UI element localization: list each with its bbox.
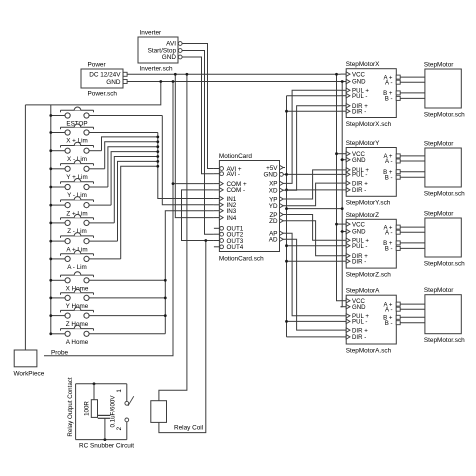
wire StepMotorZ.A- to motor	[402, 231, 425, 233]
switch X + Lim	[51, 132, 65, 134]
svg-text:1: 1	[116, 389, 123, 393]
svg-text:AVI: AVI	[166, 41, 176, 48]
switch X - Lim	[51, 150, 65, 152]
pin StepMotorY.B+ with stub	[396, 171, 401, 173]
switch Z - Lim	[51, 222, 65, 224]
svg-text:Inverter.sch: Inverter.sch	[140, 66, 173, 73]
wire Z + Lim to limit bus	[111, 152, 158, 206]
pin StepMotorX.A- with stub	[396, 81, 401, 83]
wire limit bus to MotionCard.IN1	[158, 133, 214, 199]
pin StepMotorX.PUL- with stub	[341, 95, 347, 97]
svg-text:DIR -: DIR -	[352, 258, 366, 265]
pin StepMotorX.PUL+ with stub	[341, 89, 347, 91]
pin MotionCard.COM- with stub	[214, 189, 220, 191]
wire Y DIR- branch	[287, 189, 341, 191]
wire StepMotorX.B+ to motor	[402, 92, 425, 94]
switch Z + Lim	[51, 204, 65, 206]
pin Power.DC12/24V	[123, 72, 127, 76]
svg-text:StepMotor.sch: StepMotor.sch	[424, 261, 465, 268]
svg-text:StepMotorX: StepMotorX	[346, 61, 380, 68]
pin Inverter.AVI	[178, 42, 182, 46]
svg-text:WorkPiece: WorkPiece	[14, 371, 45, 378]
wire MotionCard.YP to StepMotorY PUL+	[285, 170, 341, 199]
hierarchical block StepMotor (motor Y)	[425, 148, 461, 187]
pin StepMotorA.B+ with stub	[396, 316, 401, 318]
pin StepMotorZ.B+ with stub	[396, 242, 401, 244]
pin StepMotorA.PUL- with stub	[341, 320, 347, 322]
svg-text:A -: A -	[385, 229, 392, 236]
svg-text:GND: GND	[352, 229, 366, 236]
pin StepMotorY.PUL+ with stub	[341, 169, 347, 171]
wire MotionCard.AP to StepMotorA PUL+	[285, 233, 341, 316]
svg-text:B -: B -	[385, 174, 393, 181]
pin StepMotorA.GND with stub	[341, 306, 347, 308]
pin MotionCard.COM+ with stub	[214, 183, 220, 185]
wire COM+ branch	[173, 183, 214, 185]
hierarchical block U-Inverter	[138, 37, 178, 63]
svg-text:COM -: COM -	[227, 187, 246, 194]
svg-text:StepMotor: StepMotor	[424, 287, 454, 294]
svg-text:2: 2	[116, 426, 123, 430]
svg-text:GND: GND	[264, 172, 278, 179]
pin MotionCard.ZD with stub	[280, 220, 286, 222]
wire MotionCard.XP to StepMotorX PUL+	[285, 90, 341, 183]
pin StepMotorY.PUL- with stub	[341, 173, 347, 175]
wire StepMotorY.A- to motor	[402, 160, 425, 162]
wire home bus to MotionCard.IN3	[165, 211, 214, 334]
svg-text:IN4: IN4	[227, 215, 237, 222]
wire StepMotorX.A- to motor	[402, 81, 425, 83]
svg-text:PUL -: PUL -	[352, 243, 367, 250]
svg-text:A Home: A Home	[66, 339, 89, 346]
wire StepMotorZ.B- to motor	[402, 247, 425, 249]
pin StepMotorY.B- with stub	[396, 176, 401, 178]
wire Inverter.AVI to MotionCard.AVI+	[184, 44, 214, 169]
svg-text:PUL -: PUL -	[352, 319, 367, 326]
component Relay Coil	[151, 401, 167, 423]
pin StepMotorZ.VCC with stub	[341, 223, 347, 225]
hierarchical block U-StepMotorY (driver)	[346, 148, 396, 197]
pin Power.GND	[123, 80, 127, 84]
svg-text:DIR -: DIR -	[352, 334, 366, 341]
wire tie from minus net to GND column	[287, 208, 343, 210]
capacitor C1 0.1uF/600V	[98, 414, 111, 416]
component WorkPiece	[14, 350, 37, 367]
svg-text:100R: 100R	[84, 401, 91, 416]
pin Inverter.Start/Stop	[178, 49, 182, 53]
svg-text:StepMotorY.sch: StepMotorY.sch	[346, 200, 391, 207]
pin StepMotorA.A+ with stub	[396, 303, 401, 305]
wire StepMotorA.B+ to motor	[402, 316, 425, 318]
wire Y - Lim to limit bus	[108, 147, 158, 187]
pin MotionCard.OUT4 with stub	[214, 246, 220, 248]
wire MotionCard.XD to StepMotorX DIR+	[285, 106, 341, 191]
wire +V rail to relay coil top	[159, 74, 187, 400]
svg-text:VCC: VCC	[352, 221, 365, 228]
svg-text:DIR -: DIR -	[352, 187, 366, 194]
svg-text:StepMotor: StepMotor	[424, 141, 454, 148]
wire StepMotorX.A+ to motor	[402, 76, 425, 78]
relay output contact 1	[126, 384, 128, 402]
switch ESTOP	[51, 115, 65, 117]
pin MotionCard.XP with stub	[280, 182, 286, 184]
pin StepMotorY.A- with stub	[396, 160, 401, 162]
svg-text:Relay Output Contact: Relay Output Contact	[67, 377, 74, 436]
svg-text:VCC: VCC	[352, 71, 365, 78]
pin MotionCard.AVI- with stub	[214, 173, 220, 175]
wire GND rail from Power GND to StepMotorX GND	[127, 81, 340, 83]
svg-text:B -: B -	[385, 96, 393, 103]
wire A PUL- branch	[287, 320, 341, 322]
pin StepMotorX.A+ with stub	[396, 76, 401, 78]
pin MotionCard.OUT3 with stub	[214, 240, 220, 242]
pin StepMotorA.A- with stub	[396, 308, 401, 310]
wire +V column branch to StepMotorY VCC	[337, 153, 341, 155]
wire GND rail to switch common bus	[25, 82, 160, 105]
svg-text:StepMotor.sch: StepMotor.sch	[424, 191, 465, 198]
pin StepMotorZ.A+ with stub	[396, 226, 401, 228]
svg-text:StepMotor.sch: StepMotor.sch	[424, 337, 465, 344]
wire StepMotorX.B- to motor	[402, 97, 425, 99]
pin StepMotorA.DIR+ with stub	[341, 329, 347, 331]
wire GND column branch to StepMotorY GND	[341, 159, 343, 161]
switch A + Lim	[51, 240, 65, 242]
svg-text:DC 12/24V: DC 12/24V	[89, 72, 121, 79]
svg-text:Power: Power	[88, 62, 107, 69]
svg-text:GND: GND	[106, 79, 121, 86]
wire workpiece drop line	[24, 105, 26, 350]
wire A DIR- branch	[287, 336, 341, 338]
svg-text:StepMotorA: StepMotorA	[346, 288, 380, 295]
svg-text:0.1uF/600V: 0.1uF/600V	[110, 395, 117, 428]
svg-text:B -: B -	[385, 246, 393, 253]
svg-text:GND: GND	[352, 79, 366, 86]
wire StepMotorZ.B+ to motor	[402, 242, 425, 244]
svg-text:StepMotorX.sch: StepMotorX.sch	[346, 121, 392, 128]
svg-text:A -: A -	[385, 306, 392, 313]
wire MotionCard.ZD to StepMotorZ DIR+	[285, 221, 341, 256]
svg-text:DIR -: DIR -	[352, 108, 366, 115]
RC snubber: bottom wire	[76, 439, 127, 441]
wire A - Lim to limit bus	[121, 166, 158, 259]
hierarchical block StepMotor (motor Z)	[425, 218, 461, 257]
wire ESTOP to MotionCard.IN2	[162, 116, 214, 205]
pin StepMotorA.VCC with stub	[341, 300, 347, 302]
wire StepMotorY.A+ to motor	[402, 155, 425, 157]
wire GND column feeding StepMotorY/Z/A GND	[341, 82, 343, 307]
wire StepMotorA.A+ to motor	[402, 303, 425, 305]
svg-text:StepMotor: StepMotor	[424, 211, 454, 218]
pin MotionCard.OUT2 with stub	[214, 233, 220, 235]
svg-text:StepMotorZ.sch: StepMotorZ.sch	[346, 271, 392, 278]
hierarchical block U-MotionCard	[219, 161, 279, 252]
pin StepMotorY.A+ with stub	[396, 155, 401, 157]
pin StepMotorY.GND with stub	[341, 159, 347, 161]
switch A - Lim	[51, 258, 65, 260]
svg-text:OUT4: OUT4	[227, 244, 244, 251]
pin MotionCard.GND with stub	[280, 173, 286, 175]
wire MotionCard.AD to StepMotorA DIR+	[285, 239, 341, 330]
pin StepMotorA.B- with stub	[396, 322, 401, 324]
svg-text:A -: A -	[385, 79, 392, 86]
hierarchical block U-StepMotorX (driver)	[346, 69, 396, 118]
svg-text:MotionCard.sch: MotionCard.sch	[219, 256, 264, 263]
wire Inverter.GND to MotionCard.AVI-	[184, 57, 214, 174]
svg-text:StepMotorA.sch: StepMotorA.sch	[346, 347, 392, 354]
wire StepMotorA.A- to motor	[402, 308, 425, 310]
svg-text:Power.sch: Power.sch	[88, 91, 118, 98]
pin StepMotorX.DIR- with stub	[341, 110, 347, 112]
pin StepMotorZ.DIR- with stub	[341, 260, 347, 262]
RC snubber: top wire (relay output contact)	[76, 383, 127, 385]
pin StepMotorY.DIR- with stub	[341, 189, 347, 191]
wire X - Lim to limit bus	[102, 137, 158, 151]
svg-text:StepMotor.sch: StepMotor.sch	[424, 112, 465, 119]
pin StepMotorA.DIR- with stub	[341, 336, 347, 338]
wire +V rail from Power DC12/24V to StepMotorX VCC	[127, 73, 340, 75]
wire COM- to OUT3	[182, 190, 214, 241]
pin Inverter.GND	[178, 55, 182, 59]
pin StepMotorZ.GND with stub	[341, 231, 347, 233]
wire minus net vertical (PUL-/DIR- common, from MotionCard GND)	[286, 96, 288, 337]
hierarchical block StepMotor (motor A)	[425, 295, 461, 334]
pin StepMotorX.B+ with stub	[396, 92, 401, 94]
svg-text:Inverter: Inverter	[140, 30, 163, 37]
pin StepMotorZ.DIR+ with stub	[341, 255, 347, 257]
pin MotionCard.YP with stub	[280, 198, 286, 200]
svg-text:Relay Coil: Relay Coil	[174, 425, 203, 432]
switch A Home	[51, 333, 65, 335]
pin StepMotorZ.PUL- with stub	[341, 245, 347, 247]
svg-text:AVI -: AVI -	[227, 171, 241, 178]
pin MotionCard.AVI+ with stub	[214, 168, 220, 170]
wire X PUL- branch	[287, 95, 341, 97]
hierarchical block U-StepMotorZ (driver)	[346, 219, 396, 268]
wire Y + Lim to limit bus	[105, 142, 158, 169]
wire StepMotorY.B+ to motor	[402, 171, 425, 173]
wire MotionCard.ZP to StepMotorZ PUL+	[285, 215, 341, 241]
svg-text:A - Lim: A - Lim	[67, 264, 87, 271]
pin MotionCard.IN2 with stub	[214, 204, 220, 206]
svg-text:XD: XD	[269, 188, 278, 195]
wire Z DIR- branch	[287, 260, 341, 262]
wire +V column feeding StepMotorY/Z/A VCC	[337, 74, 341, 300]
pin StepMotorX.GND with stub	[341, 81, 347, 83]
resistor R1 100R	[93, 384, 95, 400]
wire A + Lim to limit bus	[118, 161, 158, 241]
svg-text:Probe: Probe	[51, 349, 68, 356]
svg-text:GND: GND	[352, 157, 366, 164]
svg-text:A -: A -	[385, 158, 392, 165]
pin MotionCard.IN1 with stub	[214, 198, 220, 200]
pin StepMotorZ.PUL+ with stub	[341, 239, 347, 241]
wire GND rail to COM+ and Probe	[44, 82, 173, 356]
svg-text:ZD: ZD	[269, 218, 278, 225]
wire StepMotorA.B- to motor	[402, 322, 425, 324]
pin StepMotorY.VCC with stub	[341, 153, 347, 155]
pin MotionCard.+5V with stub	[280, 167, 286, 169]
pin StepMotorX.VCC with stub	[341, 73, 347, 75]
wire relay coil bottom to MotionCard.OUT3	[159, 241, 206, 433]
svg-text:RC Snubber Circuit: RC Snubber Circuit	[79, 442, 134, 449]
pin MotionCard.AP with stub	[280, 232, 286, 234]
switch Z Home	[51, 315, 65, 317]
pin MotionCard.YD with stub	[280, 205, 286, 207]
svg-text:PUL -: PUL -	[352, 172, 367, 179]
wire switch common bus (left vertical)	[50, 105, 52, 334]
svg-text:GND: GND	[352, 304, 366, 311]
wire +V column branch to StepMotorZ VCC	[337, 223, 341, 225]
wire Z PUL- branch	[287, 245, 341, 247]
svg-text:MotionCard: MotionCard	[219, 153, 252, 160]
svg-text:B -: B -	[385, 320, 393, 327]
svg-text:StepMotorZ: StepMotorZ	[346, 212, 379, 219]
svg-text:AD: AD	[269, 237, 278, 244]
wire X DIR- branch	[287, 110, 341, 112]
svg-text:StepMotorY: StepMotorY	[346, 140, 380, 147]
switch Y Home	[51, 297, 65, 299]
svg-text:StepMotor: StepMotor	[424, 62, 454, 69]
pin MotionCard.IN4 with stub	[214, 217, 220, 219]
switch Y - Lim	[51, 186, 65, 188]
pin MotionCard.OUT1 with stub	[214, 227, 220, 229]
switch Y + Lim	[51, 168, 65, 170]
wire Z - Lim to limit bus	[114, 157, 158, 223]
wire MotionCard.YD to StepMotorY DIR+	[285, 183, 341, 206]
switch X Home	[51, 279, 65, 281]
pin StepMotorX.B- with stub	[396, 97, 401, 99]
pin MotionCard.IN3 with stub	[214, 210, 220, 212]
svg-text:PUL -: PUL -	[352, 93, 367, 100]
RC snubber: left vertical wire	[75, 384, 77, 440]
hierarchical block U-Power	[81, 69, 123, 88]
pin MotionCard.XD with stub	[280, 189, 286, 191]
pin StepMotorA.PUL+ with stub	[341, 315, 347, 317]
pin StepMotorX.DIR+ with stub	[341, 105, 347, 107]
pin StepMotorY.DIR+ with stub	[341, 182, 347, 184]
wire Inverter.Start/Stop to MotionCard.OUT2	[184, 51, 214, 235]
wire MotionCard GND pin joins minus net and Y PUL-	[285, 173, 341, 175]
hierarchical block StepMotor (motor X)	[425, 69, 461, 108]
wire GND column branch to StepMotorZ GND	[341, 231, 343, 233]
wire StepMotorY.B- to motor	[402, 176, 425, 178]
hierarchical block U-StepMotorA (driver)	[346, 295, 396, 344]
pin StepMotorZ.A- with stub	[396, 231, 401, 233]
wire +V rail to MotionCard.IN4	[175, 74, 214, 217]
svg-text:GND: GND	[162, 54, 177, 61]
pin MotionCard.AD with stub	[280, 238, 286, 240]
relay output contact 2	[125, 418, 129, 422]
svg-text:YD: YD	[269, 203, 278, 210]
pin MotionCard.ZP with stub	[280, 214, 286, 216]
pin StepMotorZ.B- with stub	[396, 247, 401, 249]
wire StepMotorZ.A+ to motor	[402, 226, 425, 228]
